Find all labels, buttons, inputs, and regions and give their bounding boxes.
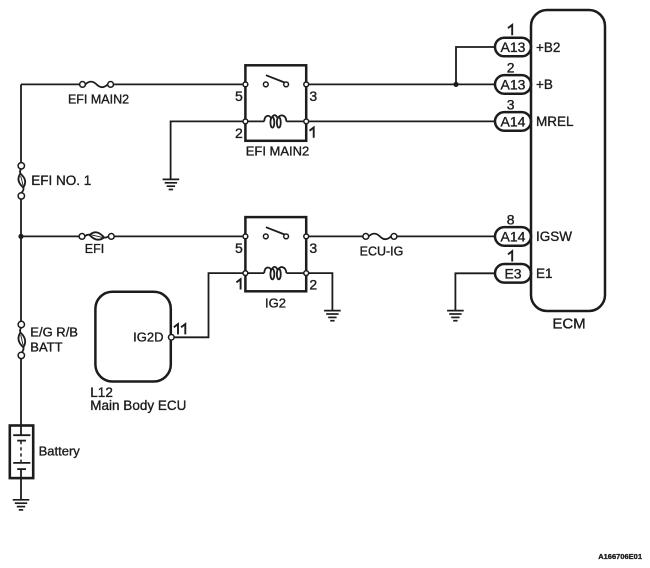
wire battery to ground [20,478,22,500]
coil lead right [286,272,303,274]
svg-text:E/G R/B: E/G R/B [30,325,78,340]
wire relay to +B [309,83,495,85]
svg-text:5: 5 [235,88,243,104]
wire relay pin2 to ground [171,121,243,179]
wire top horizontal left [21,83,80,85]
ECU body [95,292,170,382]
wire E1 to ground [455,273,495,310]
connector A13 pin 2 +B [495,60,553,94]
fuse element [369,234,391,240]
switch contact right [284,234,289,239]
connector A14 pin 8 IGSW [495,212,572,246]
wire IG2 pin3 to ECU-IG fuse [309,235,363,237]
svg-text:E3: E3 [504,265,521,281]
svg-text:2: 2 [507,60,515,76]
connector A14 pin 3 MREL [495,97,574,131]
fuse element [85,235,90,237]
wire MREL [309,120,495,122]
switch contact left [263,234,268,239]
svg-text:EFI MAIN2: EFI MAIN2 [68,93,129,107]
svg-text:3: 3 [309,240,317,256]
battery top lead [20,426,22,435]
ground (EFI MAIN2 relay coil) [163,179,180,189]
svg-text:2: 2 [309,277,317,293]
svg-text:8: 8 [507,212,515,228]
connector oval A14 [495,227,531,246]
svg-text:IGSW: IGSW [536,229,572,244]
fuse EFI (fusible link) [79,232,114,256]
pin 11 terminal [169,335,175,341]
switch contact right [284,82,289,87]
svg-text:EFI NO. 1: EFI NO. 1 [31,173,91,188]
link terminal bottom [18,352,24,358]
wire IG2 coil pin2 to ground [309,273,333,311]
relay body [245,217,306,291]
battery plate negative short lower [17,468,26,470]
svg-text:ECM: ECM [552,315,585,332]
svg-text:IG2: IG2 [265,296,286,311]
svg-text:E1: E1 [536,266,553,281]
link element [20,169,21,174]
coil lead right [286,120,303,122]
svg-text:A14: A14 [501,228,526,244]
pin 2 terminal [243,119,248,124]
coil [264,267,271,273]
node junction +B2 branch [453,82,458,87]
battery [10,426,80,479]
ground (battery) [13,500,30,510]
battery case [10,426,33,479]
battery plate positive long lower [13,462,30,464]
fusible link E/G R/B BATT [18,321,78,358]
pin 1 terminal [304,119,309,124]
fuse EFI MAIN2 [68,82,129,107]
wire second row to relay IG2 [114,235,243,237]
svg-text:A13: A13 [501,76,526,92]
wire second row left [21,235,79,237]
connector oval A14 [495,112,531,131]
switch arm [266,75,285,82]
relay EFI MAIN2 [235,65,317,158]
wire ECU-IG fuse to IGSW [397,235,495,237]
fuse terminal right [108,234,114,240]
node junction EFI branch [18,234,23,239]
pin 1 terminal [243,271,248,276]
connector oval E3 [495,264,531,283]
svg-text:3: 3 [309,88,317,104]
svg-text:2: 2 [235,125,243,141]
wire left vertical lower [20,358,22,425]
link element [20,328,21,333]
fuse element [85,82,107,88]
pin 3 terminal [304,234,309,239]
fuse terminal left [363,234,369,240]
wire left vertical upper [20,84,22,162]
connector oval A13 [495,75,531,94]
wire IG2 coil pin1 to L12 [174,273,243,337]
link terminal top [18,163,24,169]
connector A13 pin 1 +B2 [495,25,560,56]
svg-text:Battery: Battery [39,444,81,459]
battery plate positive long [13,434,30,436]
coil [264,116,271,122]
svg-text:IG2D: IG2D [133,330,163,345]
connector E3 pin 1 E1 [495,251,553,282]
svg-text:A14: A14 [501,113,526,129]
svg-text:EFI: EFI [85,242,104,256]
svg-text:MREL: MREL [536,114,574,129]
fuse terminal left [80,82,86,88]
wire left vertical middle [20,199,22,322]
svg-text:+B2: +B2 [536,40,560,55]
battery plate negative short [17,440,26,442]
pin 5 terminal [243,82,248,87]
coil lead left [248,120,264,122]
link terminal top [18,321,24,327]
wire top horizontal to relay [114,83,244,85]
svg-text:ECU-IG: ECU-IG [360,245,404,259]
pin 2 terminal [304,271,309,276]
pin 5 terminal [243,234,248,239]
svg-text:BATT: BATT [30,340,62,355]
ECM box [531,10,605,311]
connector oval A13 [495,38,531,57]
link terminal bottom [18,193,24,199]
pin number 1 [236,279,240,289]
battery cells dashed [20,441,22,462]
fuse ECU-IG [360,234,404,259]
L12 Main Body ECU box [90,292,186,413]
wire branch up to +B2 [456,47,495,84]
pin number 1 [508,251,512,261]
pin 3 terminal [304,82,309,87]
battery bottom lead [20,469,22,478]
fuse terminal left [79,234,85,240]
pin number 1 [310,128,314,138]
switch arm [266,227,285,234]
svg-text:5: 5 [235,240,243,256]
coil lead left [248,272,264,274]
fuse terminal right [391,234,397,240]
switch contact left [263,82,268,87]
svg-text:Main Body ECU: Main Body ECU [90,398,186,413]
svg-text:+B: +B [536,77,553,92]
fusible link EFI NO. 1 [18,163,91,199]
ground (E1) [447,311,464,321]
svg-text:EFI MAIN2: EFI MAIN2 [246,144,310,159]
relay body [245,65,306,141]
pin number 11 [174,324,178,334]
pin number 1 [508,25,512,35]
svg-text:A13: A13 [501,39,526,55]
svg-text:A166706E01: A166706E01 [598,552,642,561]
ground (IG2 coil) [324,311,341,321]
svg-text:3: 3 [507,97,515,113]
relay IG2 [235,217,317,311]
fuse terminal right [108,82,114,88]
